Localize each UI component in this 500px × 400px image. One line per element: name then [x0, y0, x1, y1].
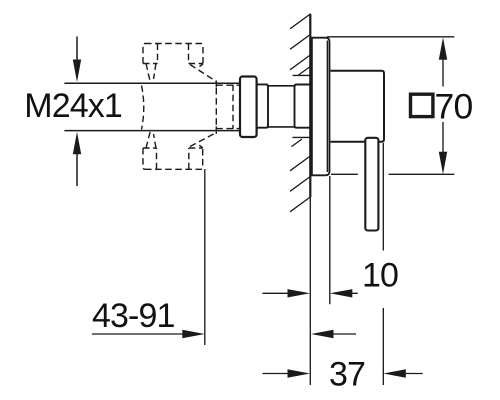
funnel bottom right slant: [190, 133, 216, 147]
wire pipe thread outline bottom: [64, 130, 240, 132]
square symbol of 70 dimension: [411, 94, 433, 116]
dimension M24x1 top arrow: [73, 37, 81, 83]
wall hole bottom edge: [293, 136, 311, 138]
dimension square70 vertical line with arrows: [442, 58, 444, 86]
node thread end solid ticks: [215, 81, 217, 88]
extension line square70 bottom (two segments): [331, 173, 358, 175]
fitting union: dashed outline: [142, 44, 240, 170]
dimension 43-91 line left part with arrow: [92, 333, 185, 335]
valve shaft bottom line: [268, 126, 295, 128]
extension line from fitting for 43-91: [204, 169, 206, 345]
escutcheon flange (side view): [312, 38, 330, 176]
dimension 10 right arrow: [330, 289, 353, 297]
ring collar after nut: [257, 84, 268, 127]
wall face line thick: [309, 14, 311, 198]
dimension 37 right arrow: [383, 369, 406, 377]
wire pipe thread outline top (M24 OD / extension line): [64, 82, 240, 84]
svg-text:37: 37: [329, 355, 365, 393]
top hex nut of fitting: [143, 44, 203, 64]
dimension 43-91 line right part with arrow: [311, 330, 334, 338]
dimension 10 left arrow: [262, 292, 290, 294]
valve shaft top line: [268, 85, 295, 87]
extension line square70 top: [327, 36, 454, 38]
wall ring collar at wall: [295, 85, 311, 128]
dimension 37 left arrow: [262, 373, 290, 375]
bottom hex nut of fitting: [143, 148, 203, 169]
svg-text:70: 70: [435, 87, 473, 127]
flange front face line: [326, 41, 328, 173]
funnel top left: [146, 64, 151, 84]
extension line from flange front for 10: [329, 176, 331, 304]
funnel top right slant: [190, 65, 216, 82]
hidden thread lines inside fitting: [215, 88, 217, 126]
valve body: [331, 71, 385, 142]
dimension M24x1 bottom arrow: [73, 132, 81, 186]
wall hatching: [290, 14, 310, 212]
funnel bottom left: [146, 131, 151, 148]
svg-text:10: 10: [362, 257, 398, 295]
left arc of fitting: [142, 86, 144, 130]
svg-text:M24x1: M24x1: [24, 87, 122, 125]
wall extension line thin (to 37 dim): [309, 197, 311, 385]
handle lever: [365, 138, 378, 231]
union nut (solid): [240, 77, 257, 138]
wall hole top edge: [293, 74, 311, 76]
extension line from body right for 37 (two segments): [382, 143, 384, 251]
svg-text:43-91: 43-91: [92, 297, 174, 335]
